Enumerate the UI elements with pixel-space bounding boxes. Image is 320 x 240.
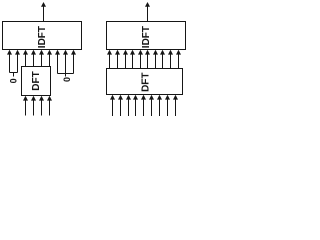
svg-text:0: 0	[62, 77, 72, 82]
svg-text:DFT: DFT	[140, 72, 151, 91]
svg-text:0: 0	[9, 78, 19, 83]
svg-text:IDFT: IDFT	[141, 26, 152, 48]
svg-text:DFT: DFT	[31, 71, 42, 90]
svg-text:IDFT: IDFT	[37, 26, 48, 48]
